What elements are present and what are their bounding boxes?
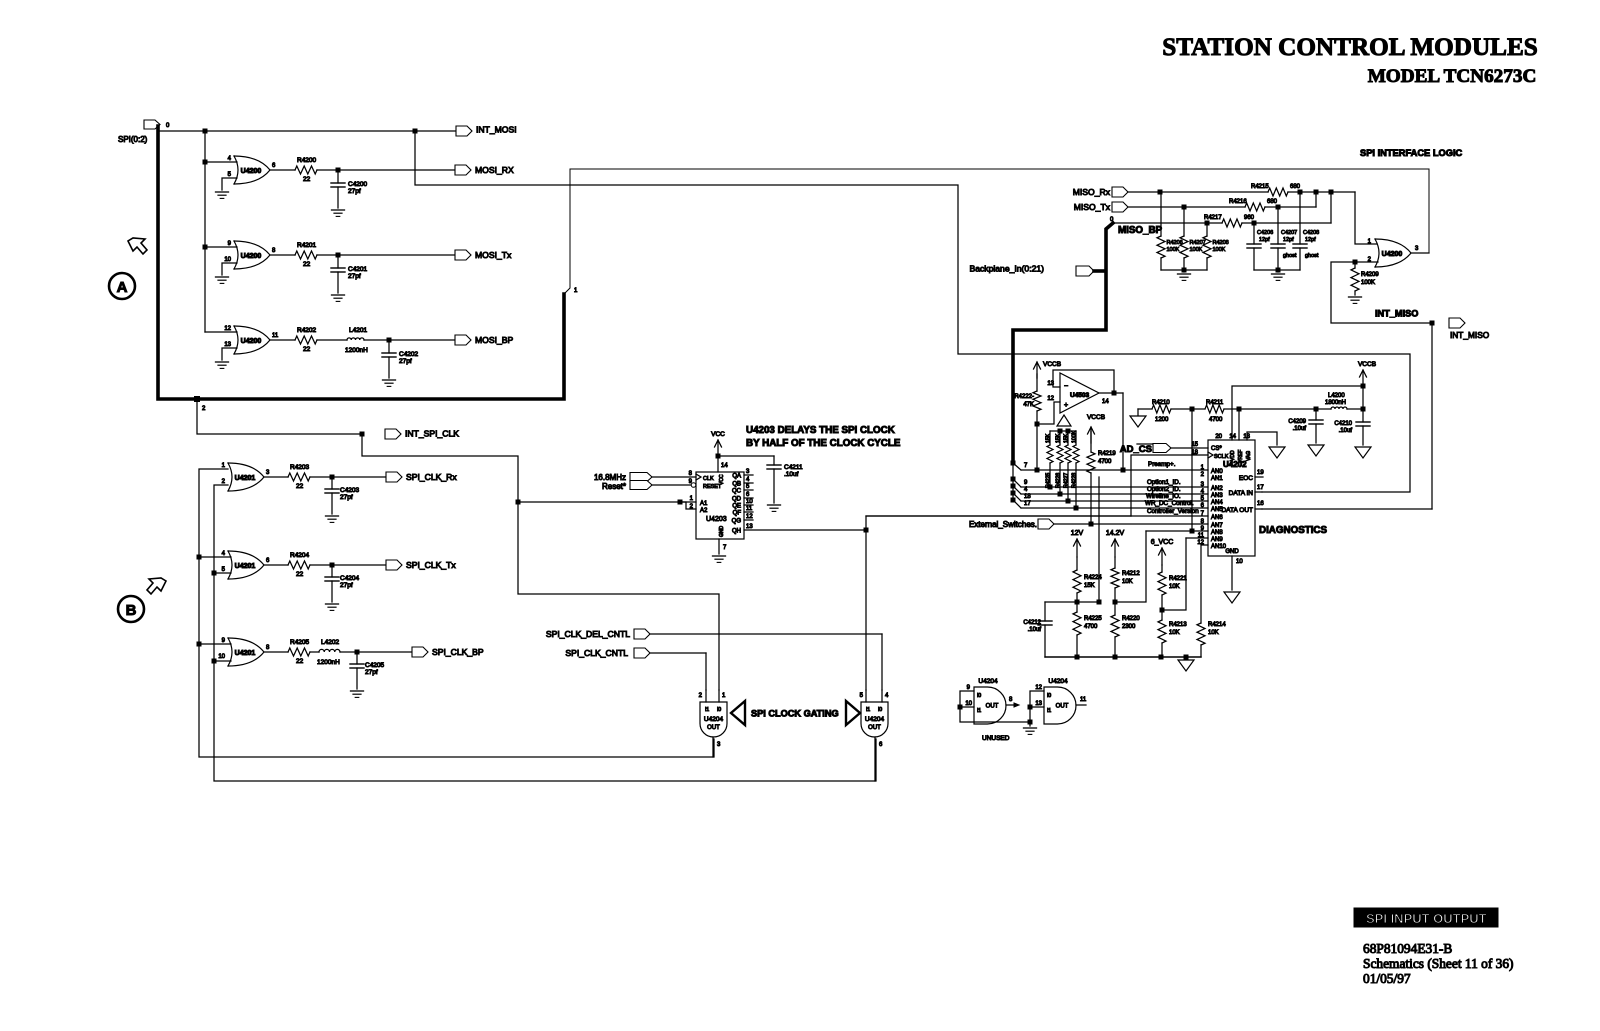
svg-text:22: 22 [303,261,311,268]
svg-text:OUT: OUT [1056,704,1069,710]
svg-text:QE: QE [732,504,741,510]
svg-text:R4215: R4215 [1251,184,1269,190]
svg-text:16.8MHz: 16.8MHz [594,473,626,482]
svg-text:A: A [117,279,128,296]
svg-text:AN9: AN9 [1211,537,1223,543]
svg-text:12pf: 12pf [1259,237,1270,243]
svg-text:Schematics (Sheet 11 of 36): Schematics (Sheet 11 of 36) [1363,956,1513,971]
svg-text:4700: 4700 [1209,417,1223,423]
svg-text:QF: QF [733,511,742,517]
svg-text:22: 22 [296,658,304,665]
svg-text:QH: QH [732,529,741,535]
svg-text:AD_CS: AD_CS [1120,444,1152,455]
svg-text:12: 12 [746,514,753,520]
svg-text:R4225: R4225 [1084,616,1102,622]
svg-text:100K: 100K [1167,247,1180,253]
svg-text:27pf: 27pf [348,188,361,195]
svg-text:1200nH: 1200nH [317,659,340,666]
svg-text:12: 12 [1035,685,1042,691]
svg-text:C4201: C4201 [348,266,368,273]
svg-text:BY HALF OF THE CLOCK CYCLE: BY HALF OF THE CLOCK CYCLE [746,438,901,449]
svg-text:14: 14 [1229,434,1236,440]
svg-text:R4214: R4214 [1208,622,1226,628]
svg-text:17: 17 [1024,501,1031,507]
svg-text:SCLK: SCLK [1214,454,1229,460]
svg-text:R4203: R4203 [290,464,310,471]
svg-text:AN2: AN2 [1211,486,1223,492]
svg-text:11: 11 [272,333,279,339]
svg-text:MISO_Rx: MISO_Rx [1073,187,1111,197]
svg-text:I1: I1 [866,707,870,713]
svg-text:SPI INPUT OUTPUT: SPI INPUT OUTPUT [1366,911,1487,926]
svg-text:C4212: C4212 [1023,620,1041,626]
svg-text:AN7: AN7 [1211,523,1223,529]
svg-text:680: 680 [1267,199,1278,205]
svg-text:C4210: C4210 [1334,421,1352,427]
svg-text:SPI CLOCK GATING: SPI CLOCK GATING [751,709,839,719]
svg-text:MOSI_RX: MOSI_RX [475,165,514,175]
svg-text:ghost: ghost [1283,253,1297,259]
svg-text:Reset*: Reset* [602,482,626,491]
svg-text:Option1_ID.: Option1_ID. [1147,479,1181,486]
svg-text:U4201: U4201 [235,475,256,482]
svg-text:100K: 100K [1361,280,1375,286]
svg-text:OUT: OUT [707,725,720,731]
svg-text:SPI_CLK_DEL_CNTL: SPI_CLK_DEL_CNTL [546,629,630,639]
svg-text:22: 22 [303,346,311,353]
svg-text:C4202: C4202 [399,351,419,358]
svg-text:MISO_BP: MISO_BP [1118,225,1163,236]
svg-text:15K: 15K [1064,433,1070,443]
svg-text:13: 13 [1035,701,1042,707]
svg-text:68P81094E31-B: 68P81094E31-B [1363,941,1452,956]
svg-text:4700: 4700 [1098,459,1112,465]
svg-text:AN1: AN1 [1211,476,1223,482]
svg-text:.10uf: .10uf [784,471,799,478]
svg-text:10K: 10K [1169,630,1180,636]
svg-text:U4204: U4204 [865,716,885,723]
svg-text:C4211: C4211 [784,464,803,471]
svg-text:INT_MISO: INT_MISO [1375,309,1418,319]
svg-text:R4220: R4220 [1122,616,1140,622]
svg-text:R4210: R4210 [1152,400,1170,406]
svg-text:SPI(0:2): SPI(0:2) [118,135,148,144]
svg-text:AN6: AN6 [1211,515,1223,521]
svg-text:12V: 12V [1071,530,1084,537]
svg-text:R4202: R4202 [297,327,317,334]
svg-text:AN8: AN8 [1211,530,1223,536]
svg-text:External_Switches.: External_Switches. [969,520,1037,529]
svg-text:01/05/97: 01/05/97 [1363,971,1411,986]
svg-text:27pf: 27pf [340,494,353,501]
svg-text:L4200: L4200 [1328,393,1345,399]
svg-text:ghost: ghost [1305,253,1319,259]
svg-text:1800nH: 1800nH [1325,400,1346,406]
svg-text:15K: 15K [1084,583,1095,589]
svg-text:13: 13 [746,524,753,530]
svg-text:VAG: VAG [1246,451,1252,461]
svg-text:10: 10 [1236,559,1243,565]
svg-text:R4213: R4213 [1169,622,1187,628]
svg-text:SPI_CLK_BP: SPI_CLK_BP [432,647,484,657]
svg-text:C4204: C4204 [340,575,360,582]
svg-text:VCCB: VCCB [1043,361,1061,368]
svg-text:47K: 47K [1023,402,1034,408]
svg-text:Option2_ID.: Option2_ID. [1147,486,1181,493]
svg-text:I1: I1 [705,707,709,713]
svg-text:INT_SPI_CLK: INT_SPI_CLK [405,429,459,439]
svg-text:12: 12 [1047,396,1054,402]
svg-text:U4503: U4503 [1070,392,1090,399]
svg-text:R4209: R4209 [1361,272,1379,278]
svg-text:QA: QA [732,474,741,480]
svg-text:QG: QG [732,519,742,525]
svg-text:A2: A2 [700,508,708,514]
svg-text:SPI_CLK_Rx: SPI_CLK_Rx [406,472,457,482]
svg-text:U4200: U4200 [1382,251,1403,258]
svg-text:960: 960 [1244,215,1255,221]
svg-text:U4204: U4204 [1048,678,1068,685]
svg-text:U4201: U4201 [235,563,256,570]
svg-text:R4205: R4205 [290,639,310,646]
svg-text:L4202: L4202 [321,639,339,646]
svg-text:10: 10 [746,499,753,505]
svg-text:4700: 4700 [1084,624,1098,630]
svg-text:C4203: C4203 [340,487,360,494]
svg-text:OUT: OUT [986,704,999,710]
svg-text:U4201: U4201 [235,650,256,657]
svg-text:R4212: R4212 [1122,571,1140,577]
svg-text:11: 11 [746,506,753,512]
svg-text:27pf: 27pf [340,582,353,589]
svg-text:A1: A1 [700,501,708,507]
svg-text:R4225: R4225 [1046,473,1052,488]
svg-text:QB: QB [732,482,741,488]
svg-text:SPI_CLK_CNTL: SPI_CLK_CNTL [565,648,628,658]
svg-text:14: 14 [1102,399,1109,405]
svg-text:10K: 10K [1208,630,1219,636]
svg-text:100K: 100K [1072,430,1078,443]
svg-text:R4219: R4219 [1098,451,1116,457]
svg-text:GND: GND [719,526,725,538]
svg-text:I0: I0 [717,707,721,713]
svg-text:13: 13 [224,342,231,348]
svg-text:R4227: R4227 [1064,473,1070,488]
svg-text:10K: 10K [1122,579,1133,585]
svg-text:C4200: C4200 [348,181,368,188]
svg-text:27pf: 27pf [399,358,412,365]
svg-text:I1: I1 [977,708,981,714]
svg-text:−: − [1064,383,1068,390]
svg-text:U4203 DELAYS THE SPI CLOCK: U4203 DELAYS THE SPI CLOCK [746,425,895,436]
svg-text:100K: 100K [1213,247,1226,253]
svg-text:INT_MOSI: INT_MOSI [476,125,517,135]
svg-text:I1: I1 [1047,708,1051,714]
svg-text:10: 10 [224,257,231,263]
svg-text:Backplane_In(0:21): Backplane_In(0:21) [969,264,1044,274]
svg-text:C4208: C4208 [1303,230,1319,236]
svg-text:UNUSED: UNUSED [982,735,1010,742]
svg-text:GND: GND [1225,549,1239,555]
svg-text:R4201: R4201 [297,242,317,249]
svg-text:QD: QD [732,497,742,503]
svg-text:SPI INTERFACE LOGIC: SPI INTERFACE LOGIC [1360,148,1463,158]
svg-text:R4222-: R4222- [1014,394,1034,400]
svg-text:12pf: 12pf [1305,237,1316,243]
svg-text:10: 10 [965,701,972,707]
svg-text:MISO_Tx: MISO_Tx [1074,202,1111,212]
svg-text:22: 22 [296,571,304,578]
svg-text:C4205: C4205 [365,662,385,669]
svg-text:.10uf: .10uf [1028,627,1042,633]
svg-text:R4211: R4211 [1206,400,1224,406]
svg-text:11: 11 [1080,697,1087,703]
svg-text:R4228: R4228 [1072,473,1078,488]
svg-text:18: 18 [1024,494,1031,500]
svg-text:CS*: CS* [1211,446,1222,452]
svg-text:.10uf: .10uf [1339,428,1353,434]
svg-text:14.2V: 14.2V [1106,530,1125,537]
svg-text:WR_DC_Control.: WR_DC_Control. [1145,500,1194,507]
svg-text:.10uf: .10uf [1293,426,1307,432]
svg-text:U4200: U4200 [241,338,262,345]
svg-text:STATION CONTROL MODULES: STATION CONTROL MODULES [1162,34,1538,61]
svg-text:MODEL TCN6273C: MODEL TCN6273C [1368,66,1537,87]
svg-text:22: 22 [303,176,311,183]
svg-text:VCC: VCC [719,474,725,485]
svg-text:+: + [1064,402,1068,409]
svg-text:VCCB: VCCB [1087,414,1105,421]
svg-text:27pf: 27pf [365,669,378,676]
svg-text:AN0: AN0 [1211,469,1223,475]
svg-text:15K: 15K [1056,433,1062,443]
svg-text:10K: 10K [1169,584,1180,590]
svg-text:14: 14 [721,463,728,469]
svg-text:CLK: CLK [703,476,714,482]
svg-text:I0: I0 [977,693,981,699]
svg-text:Preamp+.: Preamp+. [1148,461,1176,468]
svg-text:EOC: EOC [1239,475,1253,482]
svg-text:R4226: R4226 [1056,473,1062,488]
svg-text:DATA OUT: DATA OUT [1221,507,1253,514]
svg-text:B: B [126,602,137,619]
svg-text:AN10: AN10 [1211,544,1227,550]
svg-text:MOSI_Tx: MOSI_Tx [475,250,512,260]
svg-text:I0: I0 [1047,693,1051,699]
svg-text:C4206: C4206 [1257,230,1273,236]
svg-text:VCC: VCC [711,431,725,438]
svg-text:R4208: R4208 [1213,240,1229,246]
svg-text:L4201: L4201 [349,327,367,334]
svg-text:R4216: R4216 [1229,199,1247,205]
svg-text:2300: 2300 [1122,624,1136,630]
svg-text:19: 19 [1257,470,1264,476]
svg-text:R4224: R4224 [1084,575,1102,581]
svg-text:R4200: R4200 [297,157,317,164]
svg-text:15K: 15K [1046,433,1052,443]
svg-text:6_VCC: 6_VCC [1151,539,1174,546]
svg-text:C4207: C4207 [1281,230,1297,236]
svg-text:SPI_CLK_Tx: SPI_CLK_Tx [406,560,456,570]
svg-text:27pf: 27pf [348,273,361,280]
svg-text:100K: 100K [1190,247,1203,253]
svg-text:U4204: U4204 [704,716,724,723]
svg-text:1200nH: 1200nH [345,347,368,354]
svg-text:DIAGNOSTICS: DIAGNOSTICS [1259,525,1328,536]
svg-text:R4217: R4217 [1204,215,1222,221]
svg-text:AN4: AN4 [1211,500,1223,506]
svg-text:MOSI_BP: MOSI_BP [475,335,513,345]
svg-text:OUT: OUT [868,725,881,731]
svg-text:DATA IN: DATA IN [1229,490,1254,497]
svg-text:U4204: U4204 [978,678,998,685]
svg-text:16: 16 [1257,501,1264,507]
svg-text:1200: 1200 [1155,417,1169,423]
svg-text:U4202: U4202 [1223,460,1247,469]
svg-text:17: 17 [1257,485,1264,491]
svg-text:10: 10 [218,654,225,660]
svg-text:QC: QC [732,489,742,495]
svg-text:20: 20 [1215,434,1222,440]
svg-text:C4209: C4209 [1288,419,1306,425]
svg-text:22: 22 [296,483,304,490]
svg-text:I0: I0 [878,707,882,713]
svg-text:680: 680 [1290,184,1301,190]
svg-text:R4221: R4221 [1169,576,1187,582]
svg-text:R4204: R4204 [290,552,310,559]
svg-text:U4200: U4200 [241,168,262,175]
svg-text:AN3: AN3 [1211,493,1223,499]
svg-text:U4200: U4200 [241,253,262,260]
svg-text:VCCB: VCCB [1358,361,1376,368]
svg-text:INT_MISO: INT_MISO [1450,330,1490,340]
svg-text:12pf: 12pf [1283,237,1294,243]
svg-text:Wireline_IO.: Wireline_IO. [1146,493,1181,500]
svg-text:12: 12 [224,326,231,332]
svg-text:U4203: U4203 [706,516,727,523]
